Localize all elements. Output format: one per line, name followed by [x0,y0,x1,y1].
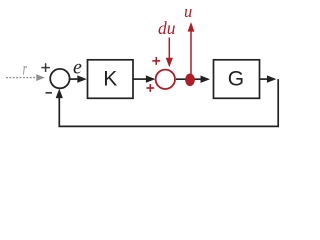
svg-text:G: G [228,68,244,91]
plus sign (top) at summing junction S2 [152,57,160,65]
svg-text:e: e [73,57,82,79]
svg-text:r: r [23,59,27,79]
node u (plant input, junction dot) [185,74,195,87]
wire: G output with arrowhead [260,75,276,82]
svg-text:du: du [158,18,176,38]
block K (controller) [88,60,134,99]
wire: dashed reference input arrow [6,74,45,81]
wire: u measurement arrow upward [188,22,195,76]
svg-text:u: u [184,2,192,21]
wire: du arrow into S2 [166,38,173,68]
plus sign at summing junction S1 [41,63,50,72]
wire: S1 to block K with arrowhead [70,75,87,82]
block G (plant) [214,60,260,99]
summing junction S2 (disturbance entry) [156,70,175,89]
svg-text:K: K [103,68,117,91]
wire: K to summing junction S2 with arrowhead [133,75,155,82]
wire: S2 to block G with arrowhead [176,76,210,83]
wire: feedback arrowhead into S1 bottom [56,89,63,99]
wire: feedback path right-down-across-up [59,79,278,126]
summing junction S1 [50,69,69,88]
minus sign at summing junction S1 [46,92,53,94]
plus sign (bottom) at summing junction S2 [146,84,154,92]
